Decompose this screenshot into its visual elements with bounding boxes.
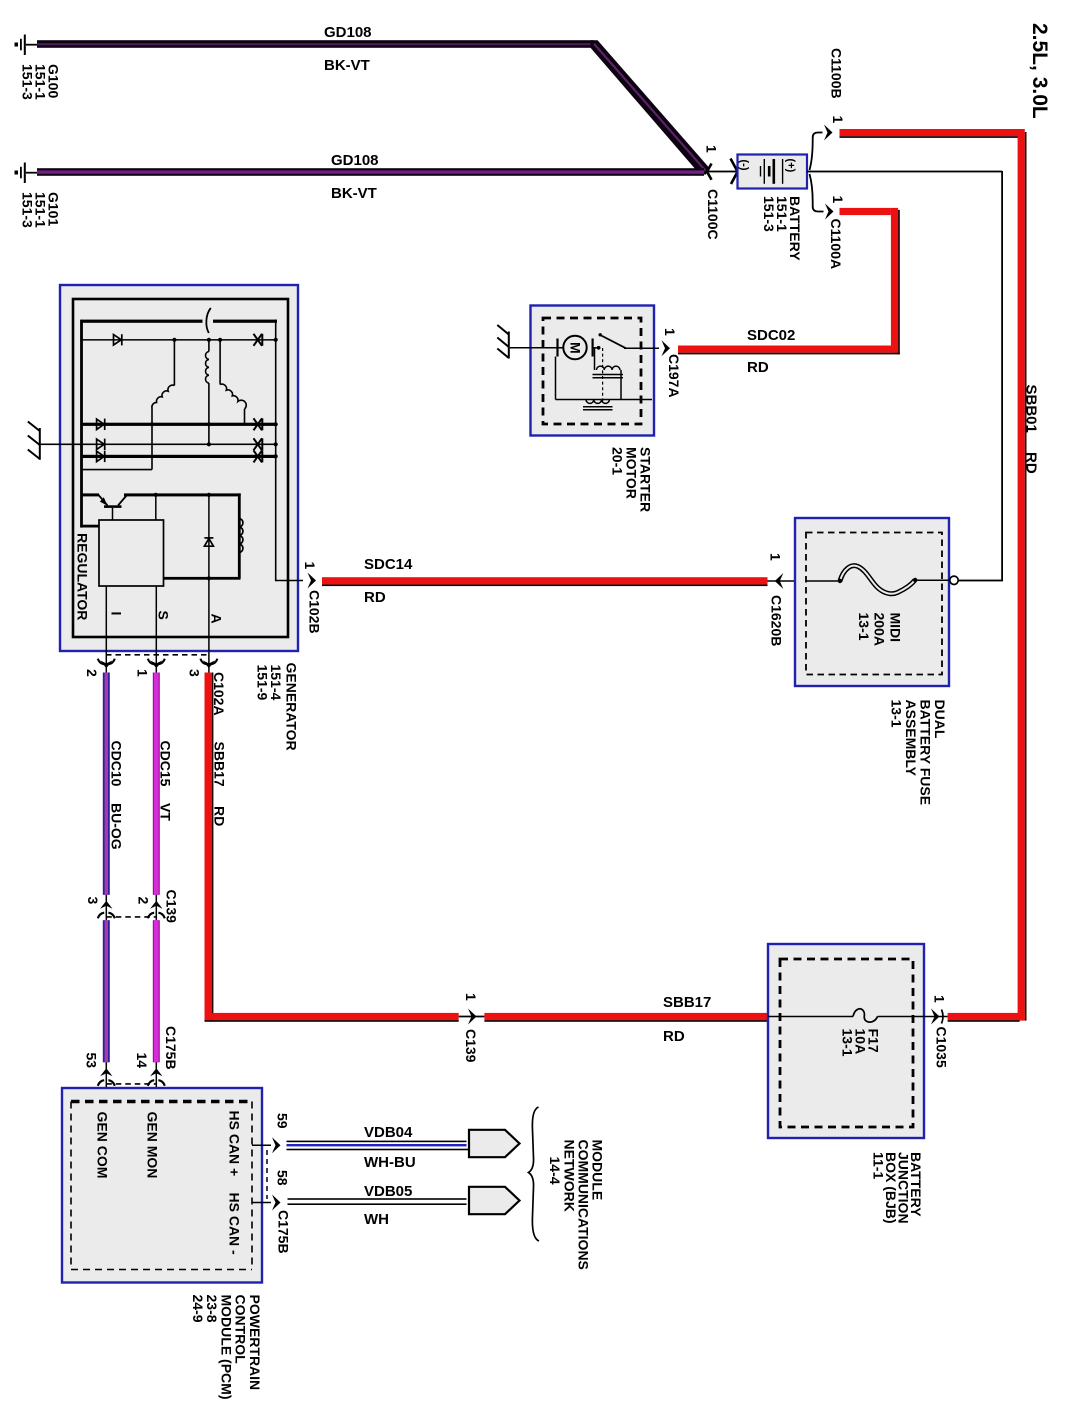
- connector C175B pin14 symbol: [148, 1062, 165, 1101]
- powertrain control module box: [62, 1088, 262, 1283]
- node dot at S drop: [154, 493, 158, 497]
- svg-text:(-): (-): [738, 160, 750, 171]
- ground G100: [15, 35, 38, 56]
- battery output wire to right: [807, 171, 1002, 173]
- svg-text:BK-VT: BK-VT: [324, 57, 370, 74]
- phase rail row5: [82, 455, 278, 458]
- wire SDC02 RD from C1100A down to starter: [678, 208, 900, 355]
- svg-text:GENERATOR: GENERATOR: [284, 663, 300, 751]
- svg-text:14-4: 14-4: [547, 1157, 563, 1185]
- svg-text:SDC14: SDC14: [364, 556, 413, 573]
- transistor Q1: [82, 493, 127, 520]
- ground lead into starter: [510, 347, 564, 349]
- diode D3 (row4 left): [97, 439, 105, 450]
- svg-text:REGULATOR: REGULATOR: [75, 533, 91, 620]
- stator winding phase A (left): [152, 340, 175, 425]
- connector C1100C male chevron: [707, 164, 712, 180]
- wire S output: [155, 586, 157, 652]
- pin 58 lead: [252, 1202, 271, 1204]
- diode D8 (row5 right): [254, 450, 263, 462]
- svg-text:BU-OG: BU-OG: [109, 803, 125, 850]
- svg-text:RD: RD: [663, 1028, 685, 1045]
- svg-text:1: 1: [768, 553, 784, 561]
- svg-text:WH: WH: [364, 1211, 389, 1228]
- starter motor box: [531, 306, 655, 436]
- svg-text:59: 59: [275, 1113, 291, 1129]
- svg-text:13-1: 13-1: [856, 613, 872, 641]
- svg-text:13-1: 13-1: [889, 700, 905, 728]
- svg-text:S: S: [156, 611, 172, 620]
- node dots row2: [172, 338, 176, 342]
- connector C1100C female chevron: [731, 159, 738, 185]
- svg-text:SDC02: SDC02: [747, 327, 795, 344]
- diode D9 (field): [204, 538, 213, 546]
- ground rail row4 (to external ground): [41, 444, 278, 446]
- svg-text:HS CAN +: HS CAN +: [227, 1111, 243, 1177]
- svg-text:HS CAN -: HS CAN -: [227, 1193, 243, 1256]
- svg-text:VDB04: VDB04: [364, 1124, 413, 1141]
- svg-text:1: 1: [830, 116, 846, 124]
- wire SBB01 RD (top run): [840, 129, 1025, 138]
- svg-text:GEN COM: GEN COM: [95, 1112, 111, 1179]
- svg-text:RD: RD: [1023, 452, 1040, 474]
- chassis ground at generator: [28, 422, 40, 460]
- svg-text:11-1: 11-1: [871, 1152, 887, 1179]
- svg-text:C175B: C175B: [276, 1210, 292, 1254]
- dashed gang line C175B: [106, 1083, 156, 1085]
- wire VDB04 WH-BU twisted pair: [287, 1141, 470, 1151]
- collector rail to field circuit: [124, 493, 241, 496]
- starter inner dashed box: [543, 318, 641, 424]
- node dots row3: [150, 422, 154, 426]
- svg-text:1: 1: [932, 995, 948, 1003]
- svg-text:24-9: 24-9: [190, 1295, 206, 1323]
- pin 59 lead: [252, 1144, 271, 1146]
- wire CDC10 BU-OG (upper segment): [103, 673, 110, 895]
- svg-text:SBB17: SBB17: [663, 994, 711, 1011]
- node dots row4: [207, 442, 211, 446]
- wire A branch vertical: [208, 495, 210, 651]
- svg-text:C1035: C1035: [934, 1027, 950, 1068]
- regulator box: [99, 520, 164, 586]
- PCM inner dashed box: [71, 1102, 252, 1270]
- connector C102A pin2 symbol: [98, 652, 115, 673]
- svg-text:RD: RD: [364, 589, 386, 606]
- wire S drop into regulator: [155, 495, 157, 521]
- svg-text:1: 1: [463, 993, 479, 1001]
- connector C175B pin59 arrow: [272, 1137, 281, 1153]
- wire switch to connector: [624, 347, 659, 349]
- svg-text:2: 2: [136, 897, 152, 905]
- svg-text:GD108: GD108: [324, 24, 372, 41]
- svg-text:M: M: [568, 342, 584, 354]
- svg-text:13-1: 13-1: [840, 1029, 856, 1057]
- branch wire to C1100B: [810, 133, 823, 171]
- connector C139 arrow (in-line): [468, 1009, 477, 1025]
- connector C175B pin58 arrow: [272, 1195, 281, 1211]
- fuse F17 10A lead-in: [768, 1016, 853, 1018]
- svg-text:SBB01: SBB01: [1023, 385, 1040, 433]
- svg-text:C1620B: C1620B: [769, 595, 785, 646]
- svg-text:3: 3: [85, 897, 101, 905]
- connector C102A pin3 symbol: [200, 652, 217, 673]
- svg-text:GEN MON: GEN MON: [145, 1112, 161, 1179]
- fuse F17 lead-out: [878, 1016, 925, 1018]
- diode D4 (row2 right): [254, 334, 263, 346]
- wire SBB17 RD horizontal run: [205, 1013, 769, 1022]
- network stub VDB04: [469, 1130, 520, 1157]
- svg-text:C197A: C197A: [666, 354, 682, 398]
- svg-text:14: 14: [134, 1053, 150, 1069]
- generator right bus: [275, 320, 277, 582]
- connector C1100B arrow: [824, 125, 833, 141]
- svg-text:2: 2: [84, 669, 100, 677]
- svg-text:VDB05: VDB05: [364, 1183, 412, 1200]
- diode D2 (row3 left): [97, 419, 105, 430]
- wire motor to switch junction: [593, 347, 599, 349]
- connector C102A pin1 symbol: [148, 652, 165, 673]
- svg-text:CDC15: CDC15: [158, 741, 174, 787]
- rotor top bar with slip-ring break: [82, 308, 278, 333]
- terminal circle at MIDI output: [950, 576, 958, 584]
- generator B+ output line: [276, 580, 303, 582]
- wire jog from phase A to left bus: [82, 424, 153, 469]
- battery box: [738, 155, 808, 189]
- svg-text:I: I: [109, 612, 125, 616]
- wire GD108 BK-VT (upper, from G100): [37, 40, 594, 48]
- diode D5 (row3 right): [254, 418, 263, 430]
- svg-text:151-3: 151-3: [20, 64, 36, 100]
- network brace: [529, 1107, 540, 1241]
- BJB inner dashed box: [780, 959, 913, 1127]
- svg-text:SBB17: SBB17: [212, 742, 228, 787]
- wire CDC15 VT (upper segment): [153, 673, 160, 895]
- solenoid pull-in coil: [593, 348, 624, 400]
- wire SDC14 RD: [322, 577, 768, 586]
- starter motor M: [558, 336, 593, 359]
- svg-text:1: 1: [704, 145, 720, 153]
- dashed gang line C175B (CAN pins): [266, 1150, 268, 1199]
- connector C197A arrow: [662, 340, 671, 356]
- branch wire to C1100A: [810, 174, 824, 212]
- svg-text:C1100A: C1100A: [828, 219, 844, 270]
- svg-text:C139: C139: [164, 890, 180, 924]
- diode D7 (row5 left): [97, 451, 105, 462]
- wire SBB17 RD vertical: [205, 673, 214, 1021]
- svg-text:VT: VT: [158, 803, 174, 821]
- chassis ground at starter: [497, 325, 509, 359]
- svg-text:151-3: 151-3: [20, 192, 36, 228]
- wire into battery: [705, 171, 738, 173]
- svg-text:WH-BU: WH-BU: [364, 1154, 416, 1171]
- svg-text:151-9: 151-9: [255, 665, 271, 701]
- solenoid plunger dashed link: [602, 348, 604, 402]
- svg-text:GD108: GD108: [331, 152, 379, 169]
- wire I output: [105, 586, 107, 652]
- MIDI inner dashed box: [806, 533, 942, 675]
- svg-text:58: 58: [275, 1170, 291, 1186]
- node dot row5: [274, 454, 278, 458]
- connector C139 pin3 symbol: [98, 895, 115, 920]
- svg-text:CDC10: CDC10: [109, 741, 125, 787]
- connector C1035 female arc: [942, 1010, 944, 1024]
- battery junction box: [768, 944, 924, 1138]
- dual battery fuse assembly box: [795, 518, 949, 686]
- svg-text:A: A: [209, 614, 225, 624]
- phase rail row2: [82, 339, 276, 341]
- wire GD108 BK-VT (lower, from G101): [37, 168, 704, 176]
- stator winding phase C (right): [220, 340, 246, 425]
- svg-text:RD: RD: [212, 806, 228, 826]
- svg-text:20-1: 20-1: [610, 447, 626, 475]
- svg-text:C139: C139: [463, 1029, 479, 1063]
- diode D1 (row2 left): [114, 334, 122, 345]
- connector C102A dashed gang line: [106, 654, 209, 656]
- generator outer box: [60, 285, 298, 651]
- svg-text:1: 1: [662, 328, 678, 336]
- svg-text:53: 53: [84, 1053, 100, 1069]
- svg-text:C175B: C175B: [163, 1026, 179, 1070]
- solenoid switch blade: [599, 333, 602, 336]
- svg-text:RD: RD: [747, 359, 769, 376]
- svg-text:C1100C: C1100C: [705, 189, 721, 240]
- generator left bus bar: [80, 320, 83, 528]
- solenoid hold-in coil: [556, 357, 653, 410]
- wire CDC15 VT (lower segment): [153, 920, 160, 1062]
- wire SBB01 RD bottom link: [948, 1013, 1025, 1022]
- svg-text:1: 1: [302, 562, 318, 570]
- wire battery feed down to MIDI fuse: [1001, 171, 1003, 580]
- battery cell plates: [761, 159, 783, 184]
- svg-text:MIDI: MIDI: [888, 613, 904, 643]
- connector C102B arrow: [308, 573, 317, 589]
- connector C139 in-line bridge: [459, 1016, 485, 1018]
- svg-text:C102B: C102B: [307, 590, 323, 634]
- stator winding phase B (middle coil): [206, 340, 209, 445]
- fuse F17 element: [853, 1009, 878, 1022]
- generator inner box: [73, 299, 288, 637]
- connector C1620B arrow: [775, 573, 784, 589]
- field circuit bottom rail: [164, 577, 241, 580]
- lead into MIDI fuse: [768, 580, 841, 582]
- svg-text:(+): (+): [785, 159, 797, 173]
- wire GD108 diagonal segment to C1100C: [591, 40, 709, 174]
- connector C139 pin2 symbol: [148, 895, 165, 920]
- diode D6 (row4 right): [254, 438, 263, 450]
- svg-text:200A: 200A: [872, 613, 888, 646]
- phase rail row3: [82, 423, 278, 426]
- fuse MIDI 200A element: [806, 566, 950, 594]
- svg-text:C1100B: C1100B: [829, 48, 845, 99]
- connector C1035 arrow: [931, 1009, 940, 1025]
- svg-text:1: 1: [830, 196, 846, 204]
- wire CDC10 BU-OG (lower segment): [103, 920, 110, 1062]
- svg-text:1: 1: [135, 669, 151, 677]
- wire VDB05 WH twisted pair: [288, 1198, 467, 1205]
- ground G101: [15, 163, 38, 184]
- connector C1100A arrow: [825, 204, 834, 220]
- wire SBB01 RD (right vertical run): [1018, 129, 1027, 1021]
- dashed gang line C139: [106, 916, 156, 918]
- field circuit right leg with rotor coil: [238, 493, 243, 578]
- thick feed from bus to regulator: [82, 525, 101, 528]
- network stub VDB05: [469, 1187, 520, 1214]
- svg-text:151-3: 151-3: [761, 196, 777, 232]
- svg-text:BK-VT: BK-VT: [331, 185, 377, 202]
- svg-text:3: 3: [187, 669, 203, 677]
- bridge to SBB01: [924, 1016, 948, 1018]
- svg-text:2.5L, 3.0L: 2.5L, 3.0L: [1028, 23, 1051, 119]
- connector C175B pin53 symbol: [98, 1062, 115, 1101]
